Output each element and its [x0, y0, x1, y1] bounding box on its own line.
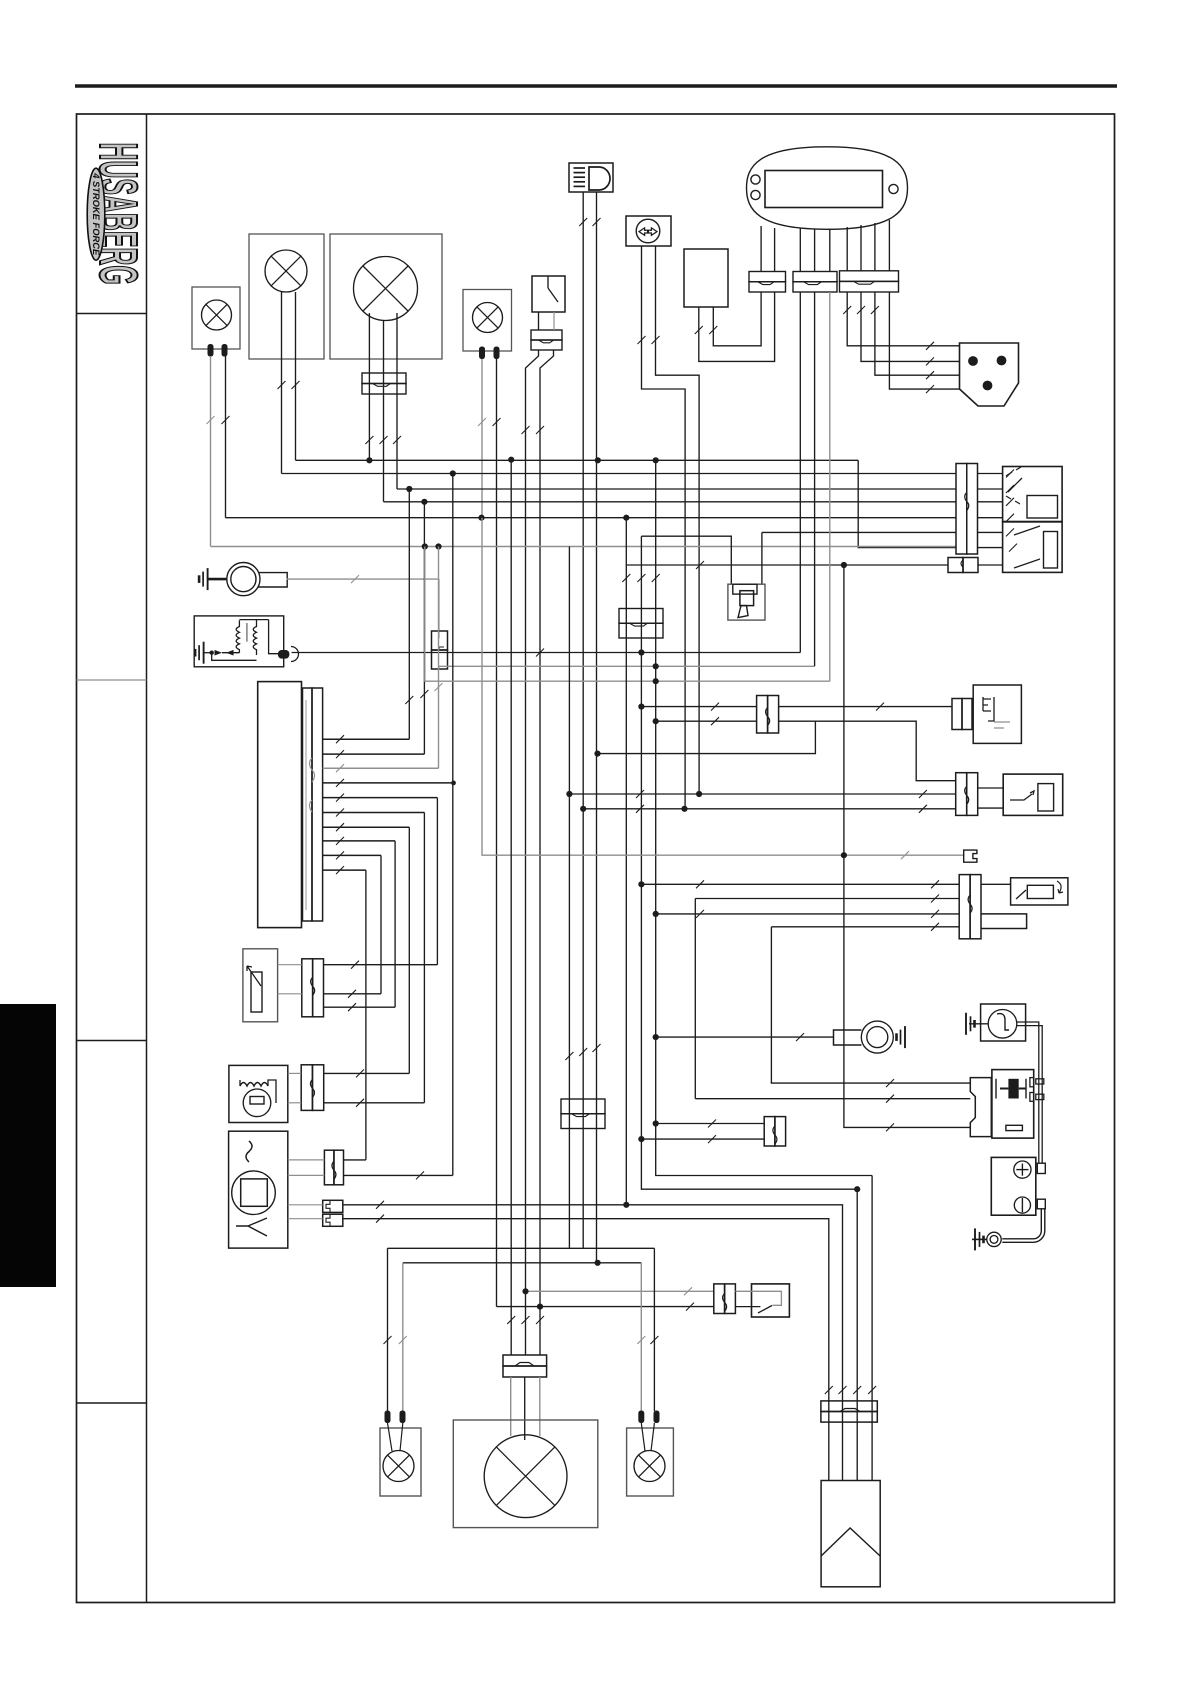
- flasher relay box: [684, 249, 728, 307]
- junction ss3: [681, 806, 687, 812]
- bus wire 4: [384, 501, 957, 503]
- horn ground lead: [208, 578, 228, 581]
- pin rl-a: [385, 1411, 391, 1424]
- lamp housing 2 (position light): [249, 234, 324, 359]
- wire ts-L: [642, 246, 686, 808]
- wire tss-1: [641, 883, 959, 885]
- regulator windings: [240, 1083, 268, 1087]
- sidebar section line 3: [77, 1040, 147, 1042]
- junction j5: [653, 1034, 659, 1040]
- rear brake switch box: [752, 1284, 790, 1317]
- stator wire 10: [323, 869, 366, 871]
- wire rear-1: [388, 1247, 655, 1249]
- connector neutral: [764, 1117, 775, 1146]
- relay contact black: [1008, 1079, 1018, 1099]
- hatch hl: [507, 1316, 515, 1324]
- lamp housing 3 (headlight bulb): [330, 234, 442, 359]
- sidebar section line 4: [77, 1402, 147, 1404]
- hatch tsR: [652, 336, 660, 344]
- battery plus: [1014, 1161, 1031, 1178]
- wire tss-4: [771, 926, 959, 928]
- hatch spc4: [926, 385, 934, 393]
- junction igs: [841, 562, 847, 568]
- battery minus: [1014, 1197, 1030, 1213]
- wire gray drop: [425, 547, 830, 682]
- junction ss1: [566, 791, 572, 797]
- junction coil-junc2: [653, 663, 659, 669]
- junction j2: [653, 718, 659, 724]
- trunk v511: [510, 460, 512, 1355]
- wire reg-box1: [288, 1072, 301, 1074]
- wire ts-R: [656, 246, 700, 794]
- wire rear-2L: [402, 1263, 404, 1411]
- front brake light switch: [532, 276, 565, 312]
- coil secondary: [269, 620, 279, 654]
- connector brake-front: [531, 330, 562, 340]
- connector turnswitch: [959, 875, 970, 939]
- battery cable minus: [1002, 1209, 1041, 1239]
- stator wire8 down: [394, 841, 396, 1007]
- trunk hatches: [622, 574, 630, 582]
- wire relay-conn-b: [641, 1138, 764, 1140]
- battery ground: [975, 1228, 984, 1250]
- junction bus4-a: [421, 499, 427, 505]
- starter relay box: [992, 1070, 1034, 1139]
- bus wire 2: [282, 473, 957, 475]
- switch housing lower (start/stop): [1003, 522, 1063, 573]
- regulator diode circle: [243, 1089, 271, 1117]
- connector start-stop: [956, 773, 967, 816]
- coil top link: [239, 619, 268, 621]
- bus hatches: [1006, 470, 1014, 478]
- coil core bar: [246, 623, 248, 642]
- wire fl-2: [713, 292, 761, 346]
- junction j4: [653, 911, 659, 917]
- stator wire 4: [323, 782, 454, 784]
- trunk wire v655: [656, 460, 872, 1175]
- wire igs-3: [844, 565, 970, 1127]
- hatch coilht: [536, 649, 544, 657]
- connector kill-2p: [952, 699, 962, 730]
- wire brakesw-2 down: [540, 350, 554, 1355]
- junction bus2-a: [450, 470, 456, 476]
- hatch w4R: [493, 418, 501, 426]
- wire rear-1R: [653, 1248, 655, 1411]
- HUSABERG logo: [87, 143, 149, 285]
- trunk wire v569: [568, 547, 570, 1249]
- junction j1: [638, 704, 644, 710]
- wire tps-1: [324, 964, 438, 966]
- wire tss-2v: [694, 899, 696, 1099]
- hatch sc: [696, 561, 704, 569]
- wire rr-b: [651, 1423, 654, 1451]
- wire reg-box2: [288, 1102, 301, 1104]
- hatch fl2: [709, 326, 717, 334]
- stator wire9 down: [380, 855, 382, 993]
- wire cdi-3: [288, 1204, 323, 1206]
- junction bus6-b: [435, 543, 441, 549]
- connector SP-C: [840, 271, 899, 282]
- sidebar divider line: [146, 114, 148, 1603]
- rear flasher right box: [627, 1428, 674, 1496]
- hatch w5b: [536, 426, 544, 434]
- lamp housing 1 (front left flasher): [192, 287, 240, 349]
- bulb 2: [265, 250, 307, 292]
- junction bus3-a: [406, 486, 412, 492]
- connector headlamp main: [503, 1355, 547, 1366]
- stator wire 2: [323, 753, 425, 755]
- hatch spcv1: [843, 306, 851, 314]
- trunk wire v641: [641, 536, 857, 1189]
- wire tss-3: [656, 913, 960, 915]
- wire lamp4-R down: [496, 359, 498, 1307]
- ground ring lug: [861, 1021, 893, 1053]
- tail light box: [453, 1420, 598, 1528]
- CDI circle-square: [232, 1171, 276, 1215]
- wire spb-1 down: [799, 292, 801, 653]
- junction ss2: [580, 806, 586, 812]
- coil primary return: [212, 653, 257, 661]
- wire reg-2: [324, 1102, 425, 1104]
- hatch w3a: [365, 436, 373, 444]
- hatch spcv2: [857, 306, 865, 314]
- CDI unit box: [229, 1131, 288, 1248]
- bulb 1: [202, 300, 232, 330]
- throttle sensor box: [243, 949, 278, 1022]
- stator upwire hatches: [405, 696, 413, 704]
- ignition coil box: [194, 616, 284, 667]
- junction j8: [854, 1186, 860, 1192]
- regulator box: [229, 1065, 288, 1122]
- wire spc-1: [847, 292, 959, 346]
- wire tss-4v: [770, 927, 772, 1083]
- kill switch box: [973, 685, 1021, 743]
- wire tps-box2: [278, 993, 302, 995]
- tail light bulb: [484, 1435, 567, 1518]
- wire tps-2: [324, 993, 382, 995]
- tail conn hatches: [565, 1052, 573, 1060]
- wire rl-a: [388, 1423, 393, 1451]
- wire horn out (gray): [287, 578, 439, 580]
- CDI Y glyph: [236, 1218, 267, 1236]
- connector single below: [948, 558, 963, 573]
- pin 1b: [222, 344, 228, 357]
- switch lever lower b: [1014, 559, 1040, 568]
- dimmer switch box: [981, 883, 1011, 885]
- wire kill-loop: [598, 721, 816, 753]
- page top rule: [75, 84, 1117, 88]
- connector SP-A: [749, 272, 786, 282]
- generator connector block: [303, 688, 313, 921]
- starter relay conn: [970, 1078, 991, 1137]
- CDI squiggle: [246, 1141, 252, 1162]
- coil winding L: [236, 620, 239, 652]
- switch lever lower a: [1014, 526, 1040, 535]
- wires SP-B: [799, 229, 801, 272]
- throttle sensor glyph: [251, 972, 262, 1012]
- hatch w1L: [207, 416, 215, 424]
- connector stub small: [964, 850, 977, 862]
- wire brakesw-1 down: [526, 350, 539, 1355]
- stator wire7 down: [408, 827, 410, 1073]
- black chapter tab: [0, 1004, 56, 1287]
- hatch fl1: [695, 326, 703, 334]
- wire coil HT: [292, 652, 801, 654]
- stub wires conn-housing: [978, 473, 1003, 475]
- high-beam indicator icon: [569, 163, 613, 192]
- stator wire 9: [323, 854, 381, 856]
- wire lamp4-L down: [481, 359, 483, 518]
- pin rr-b: [654, 1411, 660, 1424]
- ignition amplifier box: [821, 1481, 880, 1587]
- junction v452-w4: [451, 781, 456, 786]
- bus wire 3: [397, 488, 956, 490]
- bulb 4: [473, 303, 503, 333]
- wire horn down: [438, 579, 440, 638]
- wire cdi-2: [288, 1174, 325, 1176]
- junction bus1-d: [653, 457, 659, 463]
- hatch spc1: [926, 342, 934, 350]
- wire spc-3: [875, 292, 960, 375]
- trunk wire v626: [625, 518, 627, 1205]
- wire tps-box1: [278, 964, 302, 966]
- spark plug glyph: [733, 584, 757, 594]
- junction bus1-a: [366, 457, 372, 463]
- relay pins: [1030, 1078, 1034, 1087]
- display button 2: [751, 190, 760, 199]
- stator wire3 up (gray): [438, 547, 440, 769]
- battery ground lug: [987, 1232, 1001, 1246]
- pin rl-b: [400, 1411, 406, 1424]
- wire rear-1L: [387, 1248, 389, 1411]
- junction gl: [841, 852, 847, 858]
- wire rbs-2: [497, 1306, 714, 1308]
- hatch w1R: [222, 416, 230, 424]
- battery box: [991, 1157, 1036, 1215]
- wire lamp1-L down: [210, 356, 212, 547]
- wire spb-2 down: [814, 292, 816, 666]
- lamp housing 4 (front right flasher): [463, 290, 512, 352]
- pin 4a: [479, 347, 485, 360]
- connector ignition 4-pole: [821, 1401, 877, 1412]
- wire hl-3: [539, 1377, 541, 1436]
- sidebar section line 2: [77, 679, 147, 681]
- wire igs-1: [771, 1082, 971, 1084]
- switch housing lower inner: [1044, 532, 1058, 569]
- pin rr-a: [638, 1411, 644, 1424]
- hatch w3c: [393, 436, 401, 444]
- stator wire 3: [323, 767, 439, 769]
- wire gray long: [482, 518, 964, 856]
- connector CDI-A: [324, 1150, 334, 1185]
- wire lamp2-L down: [281, 292, 283, 474]
- svg-text:4 STROKE FORCE: 4 STROKE FORCE: [90, 172, 101, 256]
- stator wire 8: [323, 840, 396, 842]
- connector X3 (headlight): [362, 373, 406, 384]
- pin 4b: [494, 347, 500, 360]
- wire plug feed: [762, 531, 956, 533]
- spark plug cap blob: [278, 650, 290, 659]
- start-stop switch box: [1003, 774, 1062, 815]
- stator wire10 down: [365, 870, 367, 1160]
- turnswitch stub box: [981, 914, 1027, 929]
- display button 1: [751, 175, 760, 184]
- wire flasher out: [1017, 1022, 1039, 1070]
- connector mid (3-pole): [619, 609, 663, 624]
- battery cable plus: [1038, 1070, 1040, 1164]
- junction j7: [638, 1136, 644, 1142]
- hatch w4L: [478, 418, 486, 426]
- wire lamp3-3: [396, 313, 398, 489]
- rear flasher right bulb: [634, 1451, 665, 1482]
- wire relay-conn-a: [656, 1123, 765, 1125]
- coil winding R: [253, 620, 256, 655]
- trunk wire v452: [452, 474, 454, 1176]
- junction bus6-a: [422, 543, 428, 549]
- wire spc-2: [861, 292, 960, 361]
- wire tps-3: [324, 1006, 396, 1008]
- stator wire 5: [323, 797, 438, 799]
- junction j3: [638, 881, 644, 887]
- junction bus5-b: [623, 515, 629, 521]
- connector horn inline: [432, 631, 448, 650]
- coil primary lead: [204, 652, 212, 654]
- coil ground: [195, 642, 204, 664]
- stator wire6 down: [423, 813, 425, 1103]
- wire ss-2: [583, 808, 956, 810]
- rear flasher left bulb: [383, 1451, 414, 1482]
- relay resistor: [1006, 1125, 1023, 1130]
- outer border frame: [77, 114, 1115, 1603]
- junction j6: [653, 1120, 659, 1126]
- hatch spcv3: [871, 306, 879, 314]
- wire brakesw-stub-L: [538, 312, 540, 330]
- wire ss-stub2: [978, 807, 1004, 809]
- lug ground: [897, 1026, 906, 1048]
- hatch w2L: [278, 381, 286, 389]
- wire hl-1: [510, 1377, 512, 1436]
- wire ss-stub1: [978, 787, 1004, 789]
- junction bus1-c: [595, 457, 601, 463]
- wire lamp2-R down: [295, 292, 297, 460]
- wire spb-3 down: [829, 292, 831, 681]
- hatch spc2: [926, 357, 934, 365]
- wires SP-C: [846, 227, 848, 271]
- junction cdi3: [623, 1202, 629, 1208]
- wire kill-1: [641, 706, 756, 708]
- connector CDI-B2: [323, 1214, 343, 1226]
- wire spc-4: [889, 292, 959, 389]
- wire horn-bus: [438, 666, 440, 669]
- wire igs-2: [695, 1098, 970, 1100]
- turnflasher ground: [966, 1013, 975, 1035]
- wire lamp3-1: [368, 313, 370, 460]
- turnflasher circle: [988, 1010, 1017, 1039]
- wire rear-2R: [640, 1263, 642, 1411]
- wire reg-1: [324, 1072, 410, 1074]
- hatch hbR: [593, 218, 601, 226]
- junction rear: [595, 1260, 601, 1266]
- junction kl: [594, 751, 600, 757]
- junction gd: [653, 678, 659, 684]
- wire cdi-1: [288, 1159, 325, 1161]
- switch lever upper: [1008, 478, 1022, 492]
- hatch w5a: [522, 426, 530, 434]
- connector handlebar (8-pole): [956, 464, 967, 555]
- stator wire 7: [323, 826, 410, 828]
- pin 1a: [208, 344, 214, 357]
- stator wire2 up: [423, 502, 425, 754]
- bus wire 1 bend: [858, 460, 956, 547]
- speed sensor: [960, 343, 1019, 406]
- hatch hbL: [579, 218, 587, 226]
- connector rear brake: [714, 1284, 725, 1314]
- battery tabs: [1037, 1163, 1045, 1173]
- wire kill-2: [656, 720, 757, 722]
- stator wire 1: [323, 738, 410, 740]
- horn ground: [199, 568, 208, 590]
- connector SP-B: [793, 272, 837, 282]
- switch housing upper inner: [1027, 496, 1058, 519]
- connector kill inline: [757, 696, 768, 734]
- turn-signal indicator icon: [626, 216, 671, 246]
- connector TPS: [302, 959, 313, 1017]
- stator wire 6: [323, 812, 425, 814]
- connector CDI-B1: [323, 1200, 343, 1212]
- wire lamp1-R down: [225, 356, 227, 518]
- ignbox wire hatches: [825, 1386, 833, 1394]
- display button 3: [889, 184, 898, 193]
- junction coilht: [638, 649, 644, 655]
- spark plug box: [728, 584, 765, 620]
- wire lug: [656, 1036, 834, 1038]
- wire rr-a: [641, 1423, 645, 1451]
- wire cdi-4: [288, 1218, 323, 1220]
- wire tss-2: [695, 898, 959, 900]
- wire rear-2: [403, 1262, 642, 1264]
- wire hb-R down: [596, 192, 598, 1263]
- junction rbs: [537, 1304, 543, 1310]
- bus wire 6 (gray): [211, 546, 957, 548]
- rear flasher left box: [380, 1428, 421, 1496]
- wire lamp3-2: [383, 321, 385, 502]
- wire single-conn: [626, 564, 948, 566]
- stator wire5 down: [436, 798, 438, 965]
- generator stator box: [258, 682, 302, 928]
- bus wire 1: [296, 459, 859, 461]
- sidebar section line 1: [77, 313, 147, 315]
- junction rbs2: [522, 1288, 528, 1294]
- wire coil-HT link: [641, 536, 731, 584]
- turnflasher box: [981, 1004, 1026, 1041]
- wire ignbox-3: [856, 1189, 858, 1480]
- wire ss-1: [569, 793, 955, 795]
- hatch spc3: [926, 371, 934, 379]
- connector REG: [301, 1065, 312, 1111]
- switch housing upper (lights): [1003, 467, 1063, 522]
- wire rbs-1: [526, 1290, 714, 1292]
- multifunction speedometer: [747, 147, 908, 230]
- hatch tsL: [638, 336, 646, 344]
- wire ignbox-4: [871, 1176, 873, 1481]
- bulb 3: [354, 257, 418, 321]
- stator wire1 up: [408, 489, 410, 739]
- connector tail harness: [561, 1099, 605, 1114]
- wire rl-b: [400, 1423, 403, 1451]
- horn: [227, 563, 260, 596]
- hatch w2R: [292, 381, 300, 389]
- junction bus5-a: [478, 515, 484, 521]
